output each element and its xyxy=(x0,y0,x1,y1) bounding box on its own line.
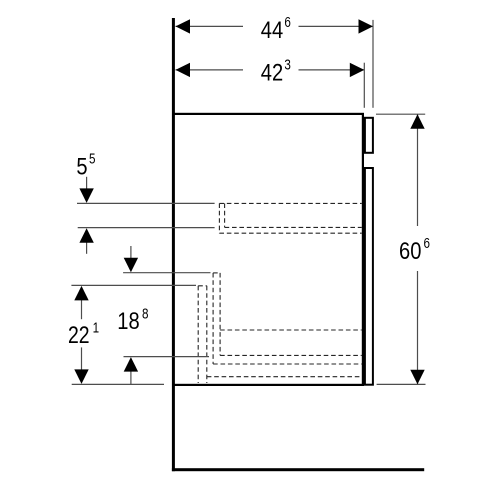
extension line: front panel right edge (44.6) xyxy=(372,20,374,108)
bottom drawer: bottom panel top line (dashed) xyxy=(220,354,362,356)
extension line: top of outer front (22.1 upper) xyxy=(71,284,196,286)
svg-text:3: 3 xyxy=(284,58,291,74)
bottom drawer: outer front right edge (dashed) xyxy=(206,286,208,383)
bottom drawer: outer front left edge (dashed) xyxy=(197,286,199,383)
dimension 22.1 (outer front height, left) xyxy=(68,286,99,384)
bottom drawer: internal drawer bottom (dashed) xyxy=(220,329,362,331)
arrowhead left (42.3) xyxy=(176,63,191,77)
front panel upper tab xyxy=(365,118,373,153)
bottom drawer: base rail line (dashed) xyxy=(207,376,362,378)
arrowhead up (18.8) xyxy=(124,357,138,372)
dimension 44.6 (overall depth, top) xyxy=(176,15,374,44)
arrowhead up (22.1) xyxy=(74,286,88,301)
arrowhead up (60.6) xyxy=(410,114,424,129)
svg-text:6: 6 xyxy=(424,236,431,252)
svg-text:5: 5 xyxy=(76,154,87,181)
arrowhead up (5.5) xyxy=(79,228,93,243)
wall line xyxy=(172,18,175,471)
arrowhead down (22.1) xyxy=(74,369,88,384)
top internal drawer: front bottom rail (dashed) xyxy=(219,232,361,234)
bottom drawer: inner front right edge (dashed) xyxy=(219,273,221,356)
svg-text:18: 18 xyxy=(117,308,139,335)
svg-text:6: 6 xyxy=(284,15,291,31)
svg-text:1: 1 xyxy=(93,321,100,337)
arrowhead right (42.3) xyxy=(350,63,365,77)
arrowhead right (44.6) xyxy=(359,19,374,33)
bottom drawer: bottom panel lower line (dashed) xyxy=(213,363,362,365)
svg-text:42: 42 xyxy=(261,60,283,87)
floor line xyxy=(172,468,424,471)
extension line: bottom of inner front (18.8 lower) xyxy=(124,356,210,358)
svg-text:8: 8 xyxy=(142,306,149,322)
arrowhead down (5.5) xyxy=(79,188,93,203)
dimension 18.8 (inner front height, left) xyxy=(117,246,148,384)
svg-text:5: 5 xyxy=(89,152,96,168)
arrowhead down (18.8) xyxy=(124,258,138,273)
front panel lower part xyxy=(365,168,373,385)
top internal drawer: side-wall bottom edge (dashed) xyxy=(225,226,362,228)
bottom drawer: inner front top edge (dashed) xyxy=(213,272,220,274)
dimension 60.6 (height, right) xyxy=(376,114,430,384)
bottom drawer: inner front left edge (dashed) xyxy=(212,273,214,364)
dimension 42.3 (cabinet depth, top) xyxy=(176,58,365,87)
top internal drawer: front panel left edge (dashed) xyxy=(218,203,220,233)
extension line: cabinet bottom (22.1 lower) xyxy=(72,383,164,385)
extension line: bottom of internal drawer front (5.5 lower) xyxy=(78,227,215,229)
extension line: cabinet front edge (42.3) xyxy=(363,63,365,108)
arrowhead left (44.6) xyxy=(176,19,191,33)
cabinet body outline xyxy=(173,114,363,385)
svg-text:22: 22 xyxy=(68,322,90,349)
top internal drawer: top edge (dashed) xyxy=(219,202,361,204)
dimension 5.5 (internal drawer front height, left) xyxy=(76,152,95,254)
extension line: top of inner front (18.8 upper) xyxy=(123,272,210,274)
arrowhead down (60.6) xyxy=(410,370,424,385)
top internal drawer: front panel right edge (dashed) xyxy=(224,203,226,227)
bottom drawer: outer front top edge (dashed) xyxy=(198,285,207,287)
extension line: top of internal drawer front (5.5 upper) xyxy=(77,202,215,204)
svg-text:60: 60 xyxy=(399,238,421,265)
svg-text:44: 44 xyxy=(261,17,283,44)
